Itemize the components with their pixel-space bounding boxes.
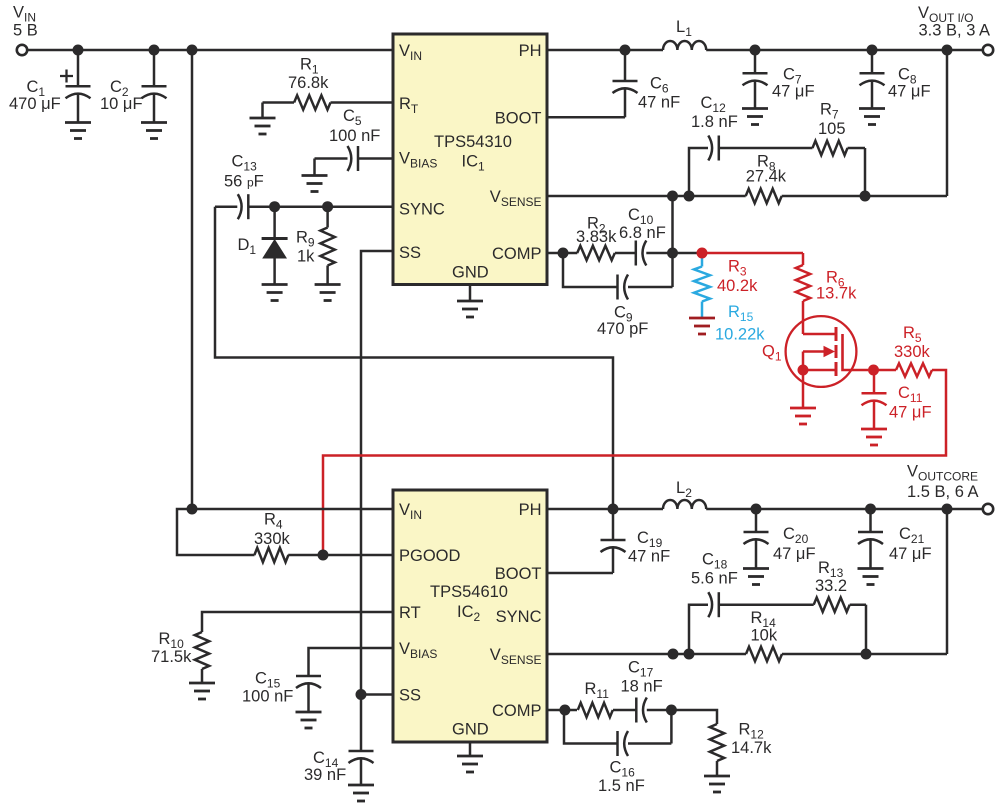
svg-text:PGOOD: PGOOD bbox=[399, 547, 461, 565]
svg-text:47 nF: 47 nF bbox=[638, 94, 680, 112]
svg-text:100 nF: 100 nF bbox=[329, 127, 380, 145]
svg-text:C20: C20 bbox=[783, 525, 809, 546]
svg-text:R3: R3 bbox=[728, 258, 747, 279]
svg-text:71.5k: 71.5k bbox=[151, 648, 192, 666]
svg-text:14.7k: 14.7k bbox=[731, 739, 772, 757]
svg-text:PH: PH bbox=[519, 42, 542, 60]
svg-text:SYNC: SYNC bbox=[496, 608, 542, 626]
svg-text:76.8k: 76.8k bbox=[288, 74, 329, 92]
svg-text:47 μF: 47 μF bbox=[888, 82, 931, 100]
svg-text:47 μF: 47 μF bbox=[772, 82, 815, 100]
svg-text:GND: GND bbox=[452, 264, 489, 282]
svg-text:18 nF: 18 nF bbox=[621, 678, 663, 696]
svg-text:10 μF: 10 μF bbox=[100, 95, 143, 113]
svg-text:470 pF: 470 pF bbox=[597, 320, 648, 338]
svg-text:3.83k: 3.83k bbox=[576, 228, 617, 246]
svg-text:6.8 nF: 6.8 nF bbox=[619, 224, 666, 242]
svg-text:C13: C13 bbox=[232, 153, 258, 174]
svg-text:33.2: 33.2 bbox=[815, 577, 847, 595]
svg-text:C6: C6 bbox=[650, 75, 669, 96]
svg-text:C17: C17 bbox=[628, 659, 654, 680]
svg-text:3.3 B, 3 A: 3.3 B, 3 A bbox=[919, 22, 991, 40]
svg-text:1k: 1k bbox=[297, 248, 315, 266]
svg-text:100 nF: 100 nF bbox=[242, 688, 293, 706]
svg-text:47 μF: 47 μF bbox=[773, 545, 816, 563]
svg-text:10k: 10k bbox=[751, 627, 778, 645]
svg-text:39 nF: 39 nF bbox=[304, 766, 346, 784]
svg-text:1.5 B, 6 A: 1.5 B, 6 A bbox=[907, 483, 979, 501]
svg-text:SS: SS bbox=[399, 244, 421, 262]
svg-text:5 B: 5 B bbox=[13, 22, 38, 40]
svg-text:TPS54610: TPS54610 bbox=[430, 583, 508, 601]
svg-text:COMP: COMP bbox=[492, 702, 542, 720]
svg-text:SYNC: SYNC bbox=[399, 201, 445, 219]
svg-text:VOUTCORE: VOUTCORE bbox=[907, 463, 978, 484]
svg-text:C18: C18 bbox=[702, 550, 728, 571]
svg-text:330k: 330k bbox=[894, 343, 931, 361]
svg-text:C5: C5 bbox=[343, 107, 362, 128]
svg-text:Q1: Q1 bbox=[762, 343, 782, 364]
svg-text:L1: L1 bbox=[676, 18, 692, 39]
svg-text:BOOT: BOOT bbox=[495, 109, 542, 127]
svg-text:GND: GND bbox=[452, 721, 489, 739]
svg-text:PH: PH bbox=[519, 501, 542, 519]
svg-text:105: 105 bbox=[818, 120, 846, 138]
svg-text:47 nF: 47 nF bbox=[628, 548, 670, 566]
svg-text:470 μF: 470 μF bbox=[9, 95, 61, 113]
svg-text:C11: C11 bbox=[898, 384, 923, 405]
svg-text:47 μF: 47 μF bbox=[889, 545, 932, 563]
svg-text:COMP: COMP bbox=[492, 245, 542, 263]
svg-text:TPS54310: TPS54310 bbox=[434, 133, 512, 151]
svg-text:SS: SS bbox=[399, 687, 421, 705]
svg-text:10.22k: 10.22k bbox=[715, 326, 765, 344]
svg-text:R4: R4 bbox=[264, 511, 283, 532]
svg-text:RT: RT bbox=[399, 604, 421, 622]
svg-text:1.8 nF: 1.8 nF bbox=[691, 113, 738, 131]
svg-text:27.4k: 27.4k bbox=[746, 168, 787, 186]
svg-text:13.7k: 13.7k bbox=[816, 285, 857, 303]
svg-text:5.6 nF: 5.6 nF bbox=[691, 570, 738, 588]
svg-text:BOOT: BOOT bbox=[495, 565, 542, 583]
svg-text:R11: R11 bbox=[585, 680, 610, 701]
svg-text:330k: 330k bbox=[254, 530, 291, 548]
svg-text:1.5 nF: 1.5 nF bbox=[598, 777, 645, 795]
svg-text:C21: C21 bbox=[899, 525, 925, 546]
svg-text:R15: R15 bbox=[728, 303, 754, 324]
svg-text:L2: L2 bbox=[676, 479, 692, 500]
svg-text:56 pF: 56 pF bbox=[224, 172, 264, 190]
svg-text:40.2k: 40.2k bbox=[717, 277, 758, 295]
svg-text:R5: R5 bbox=[903, 324, 922, 345]
svg-text:R7: R7 bbox=[820, 100, 839, 121]
svg-text:D1: D1 bbox=[238, 236, 257, 257]
svg-text:47 μF: 47 μF bbox=[889, 404, 932, 422]
